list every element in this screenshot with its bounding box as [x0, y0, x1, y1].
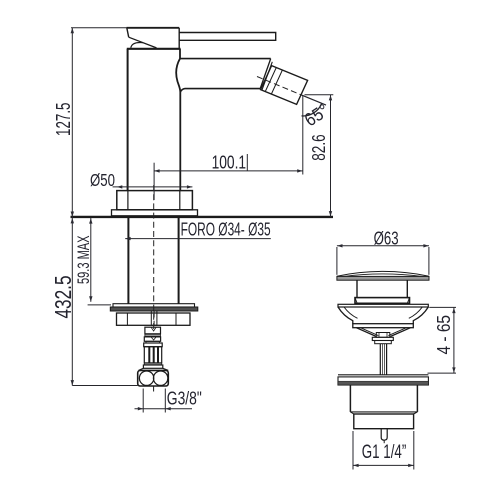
taper left — [139, 368, 144, 370]
drain body left — [349, 385, 351, 412]
cone outer right — [390, 328, 410, 337]
svg-text:G3/8": G3/8" — [167, 389, 202, 409]
nut facet right — [175, 313, 177, 325]
nut facet left — [126, 313, 128, 325]
hose segment 2 — [144, 337, 160, 341]
braid stripe 2 — [153, 347, 155, 363]
dim line 82.6 vertical — [330, 95, 332, 217]
arrow d50 left — [117, 185, 122, 188]
mounting nut — [117, 313, 191, 325]
funnel bell left — [338, 307, 353, 324]
ext G114 left — [352, 431, 354, 470]
funnel inner curve left — [344, 307, 358, 318]
svg-text:65°: 65° — [301, 99, 333, 130]
drain cap outer dome — [337, 271, 429, 276]
stem inner left — [382, 344, 384, 375]
cap right edge — [178, 28, 180, 49]
collar chamfer left — [355, 298, 357, 304]
lever cap left edge — [127, 28, 129, 37]
hose V mark 2 — [151, 337, 156, 340]
arrow G114 right — [408, 464, 413, 467]
ext nozzle tip vertical — [302, 95, 304, 174]
text end tick 100.1 — [246, 154, 248, 171]
arrow G38 left — [138, 407, 143, 410]
arrow G38 right — [165, 407, 170, 410]
cylinder inner line left — [378, 333, 380, 338]
cone inner right — [388, 328, 406, 336]
svg-text:G1 1/4”: G1 1/4” — [362, 442, 407, 463]
stem right — [386, 344, 388, 375]
dim 432.5 bottom ref line — [72, 385, 137, 387]
bottom plate box — [338, 377, 428, 385]
drain body right — [416, 385, 418, 412]
braid bottom band — [144, 363, 161, 365]
arrow 4-65 bottom — [452, 367, 455, 372]
bottom plate thin line — [338, 374, 428, 376]
below box tick — [153, 386, 155, 392]
chamfer right — [414, 412, 418, 414]
drain cap inner dome — [344, 274, 422, 277]
dashed axis nozzle — [257, 77, 302, 96]
arrow deck up — [71, 218, 74, 223]
leader FORO — [125, 238, 271, 240]
bottom plate dark band — [338, 381, 428, 385]
body left edge — [127, 49, 129, 191]
lever bar — [179, 33, 276, 41]
hose V mark 1 — [151, 327, 156, 331]
ext 82.6 top — [305, 94, 334, 96]
svg-text:127.5: 127.5 — [53, 103, 75, 137]
center stud — [151, 311, 157, 325]
cone inner cylinder — [376, 333, 390, 338]
washer thin plate — [113, 304, 195, 307]
arrow d63 left — [337, 244, 342, 247]
collar chamfer right — [407, 298, 409, 304]
cone outer left — [356, 328, 376, 337]
svg-text:59.3 MAX: 59.3 MAX — [74, 236, 93, 285]
arrow top 127.5 — [71, 28, 74, 33]
arrow 82.6 top — [329, 95, 332, 100]
deck line — [71, 216, 334, 218]
shank left edge — [127, 218, 129, 304]
arrow 432.5 bottom — [71, 380, 74, 385]
dim line 127.5 and 432.5 vertical — [71, 28, 73, 386]
hose gray band — [145, 334, 161, 336]
cone inner left — [360, 328, 378, 336]
spout arm bottom — [180, 89, 260, 92]
arrow FORO leader — [125, 237, 130, 240]
body bottom line — [350, 411, 417, 413]
svg-text:Ø50: Ø50 — [90, 170, 115, 190]
braid bottom collar — [143, 365, 162, 368]
dim line diameter 63 — [337, 245, 429, 247]
stem inner right — [383, 344, 385, 375]
body right edge with blend curve — [176, 49, 180, 191]
hose nuts box — [138, 370, 169, 386]
lever cap top — [127, 27, 180, 29]
arrow G114 left — [353, 464, 358, 467]
svg-text:FORO Ø34- Ø35: FORO Ø34- Ø35 — [181, 219, 271, 239]
arrow 4-65 top — [452, 308, 455, 313]
dim line G114 — [353, 464, 414, 466]
nozzle collar line — [262, 62, 272, 90]
ext washer top — [88, 304, 111, 306]
dim line diameter 50 — [113, 186, 193, 188]
shank right edge — [178, 218, 180, 304]
dim line G38 — [135, 408, 193, 410]
stem left — [379, 344, 381, 375]
dim line 100.1 — [154, 170, 303, 172]
drain top plate — [338, 304, 428, 307]
base flange — [117, 191, 193, 210]
drain neck right — [406, 280, 408, 297]
svg-text:82.6: 82.6 — [309, 134, 329, 160]
drain collar — [355, 298, 410, 304]
svg-text:4 - 65: 4 - 65 — [434, 315, 454, 355]
taper right — [163, 368, 169, 370]
spout arm end face — [260, 59, 271, 89]
svg-text:432.5: 432.5 — [50, 276, 76, 319]
body edge through flange right — [179, 191, 181, 210]
hose segment 1 — [145, 327, 161, 334]
braid stripe 1 — [148, 347, 150, 363]
lever pivot arc — [131, 42, 143, 47]
body edge through flange left — [127, 191, 129, 210]
arc 65 degrees — [302, 103, 322, 116]
washer dark band — [110, 307, 198, 311]
hose nut circle left — [139, 371, 153, 385]
leg 65 degrees — [302, 95, 326, 105]
ext 4-65 bottom — [428, 372, 457, 374]
arrow d50 right — [187, 185, 192, 188]
drain cap band — [337, 276, 429, 280]
stem small band — [375, 341, 392, 344]
drain pin — [381, 429, 387, 441]
nozzle body — [261, 66, 308, 105]
nozzle internal line 2 — [271, 70, 282, 94]
ext G38 left — [142, 389, 144, 413]
ext d63 right — [428, 247, 430, 275]
ext centerline 100.1 — [153, 163, 155, 200]
braid top collar — [144, 343, 163, 347]
svg-text:100.1: 100.1 — [212, 151, 247, 172]
arrow d63 right — [423, 244, 428, 247]
cylinder inner line right — [386, 333, 388, 338]
dashed centerline faucet — [154, 77, 302, 331]
ext G38 right — [164, 389, 166, 413]
hose nut circle right — [153, 371, 167, 385]
nozzle internal line 1 — [265, 68, 276, 92]
hose transition — [146, 341, 159, 343]
ext d63 left — [336, 247, 338, 275]
base plate — [112, 210, 198, 216]
arrow 82.6 bottom — [329, 211, 332, 216]
braided hose — [144, 347, 161, 363]
arrow 100.1 right — [297, 169, 302, 172]
dim extension top — [71, 27, 127, 29]
braid stripe 3 — [157, 347, 159, 363]
funnel bell right — [413, 307, 428, 324]
lever diagonal — [129, 37, 157, 48]
funnel inner curve right — [409, 307, 423, 318]
drain neck left — [356, 280, 358, 297]
ext G114 right — [413, 431, 415, 470]
arrow 59.3 bottom — [89, 296, 92, 301]
ext 4-65 top — [429, 306, 456, 308]
arrow 100.1 left — [154, 169, 159, 172]
arrow 59.3 top — [89, 218, 92, 223]
pin tick — [383, 440, 385, 443]
chamfer left — [350, 412, 353, 414]
arrow deck down — [71, 212, 74, 217]
stem top band — [372, 337, 393, 340]
stud dashes — [153, 312, 155, 326]
dim line 59.3 vertical — [90, 218, 92, 302]
svg-text:Ø63: Ø63 — [374, 228, 399, 248]
cap bottom thick line — [127, 48, 181, 50]
funnel lip — [353, 324, 414, 328]
threaded box — [354, 414, 414, 429]
dim line 4-65 — [453, 307, 455, 373]
spout arm top — [180, 58, 271, 60]
